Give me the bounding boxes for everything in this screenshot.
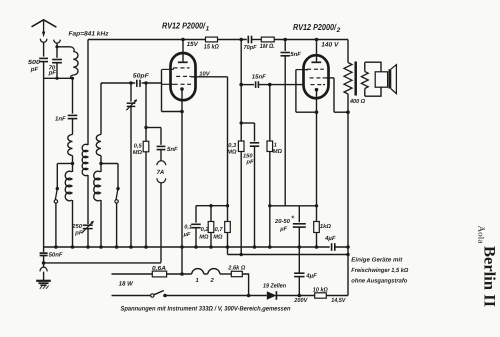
svg-text:+: +: [291, 215, 295, 221]
svg-text:pF: pF: [48, 70, 57, 77]
svg-text:µF: µF: [183, 232, 191, 238]
svg-text:Einige Geräte mit: Einige Geräte mit: [351, 257, 403, 264]
svg-text:MΩ: MΩ: [273, 149, 283, 155]
svg-text:20-50: 20-50: [274, 218, 291, 225]
svg-text:2: 2: [210, 277, 215, 284]
svg-text:500: 500: [28, 59, 41, 66]
svg-text:Freischwinger 1,5 kΩ: Freischwinger 1,5 kΩ: [351, 267, 408, 274]
svg-text:1: 1: [206, 25, 210, 32]
svg-text:10V: 10V: [199, 70, 210, 77]
svg-text:RV12 P2000/: RV12 P2000/: [162, 20, 206, 30]
svg-text:4µF: 4µF: [324, 235, 336, 242]
svg-text:1nF: 1nF: [55, 116, 66, 123]
svg-text:MΩ: MΩ: [227, 149, 237, 155]
svg-text:MΩ: MΩ: [133, 150, 143, 156]
svg-text:MΩ: MΩ: [213, 234, 223, 240]
svg-text:pF: pF: [246, 160, 254, 166]
svg-text:2,6k Ω: 2,6k Ω: [227, 265, 245, 272]
svg-text:250: 250: [71, 223, 82, 230]
svg-text:70pF: 70pF: [244, 44, 257, 51]
svg-text:7A: 7A: [157, 169, 165, 176]
svg-text:0,3: 0,3: [228, 143, 237, 149]
svg-text:5nF: 5nF: [290, 51, 301, 58]
svg-text:14,5V: 14,5V: [331, 297, 346, 304]
svg-text:15nF: 15nF: [252, 74, 266, 81]
svg-text:µF: µF: [279, 227, 287, 233]
svg-text:19 Zellen: 19 Zellen: [263, 283, 286, 290]
svg-text:1M Ω.: 1M Ω.: [260, 43, 275, 50]
svg-text:RV12 P2000/: RV12 P2000/: [293, 22, 337, 32]
svg-text:Fap=841 kHz: Fap=841 kHz: [69, 30, 110, 37]
svg-text:2: 2: [336, 27, 341, 34]
svg-text:Berlin II: Berlin II: [481, 246, 498, 307]
svg-text:0,2: 0,2: [201, 227, 210, 233]
svg-text:0,7: 0,7: [215, 227, 224, 233]
svg-text:Spannungen mit Instrument 333Ω: Spannungen mit Instrument 333Ω / V, 300V…: [121, 305, 291, 312]
svg-text:50pF: 50pF: [133, 73, 149, 80]
svg-text:MΩ: MΩ: [199, 234, 209, 240]
svg-text:pF: pF: [74, 230, 83, 236]
svg-text:15 kΩ: 15 kΩ: [204, 44, 219, 51]
svg-text:18 W: 18 W: [119, 281, 134, 288]
svg-text:pF: pF: [30, 66, 39, 73]
svg-text:1: 1: [274, 142, 277, 148]
svg-text:0,6A: 0,6A: [152, 265, 166, 272]
svg-text:0,5: 0,5: [134, 143, 143, 149]
svg-text:ohne Ausgangstrafo: ohne Ausgangstrafo: [351, 278, 407, 285]
svg-text:1kΩ: 1kΩ: [320, 223, 331, 230]
svg-text:0,1: 0,1: [184, 225, 192, 231]
svg-text:200V: 200V: [293, 297, 308, 304]
svg-text:10 kΩ: 10 kΩ: [313, 286, 328, 293]
svg-text:4µF: 4µF: [305, 273, 317, 280]
svg-text:15V: 15V: [187, 41, 199, 48]
svg-text:5nF: 5nF: [167, 146, 178, 153]
svg-text:50nF: 50nF: [49, 252, 63, 259]
svg-text:400 Ω: 400 Ω: [349, 98, 365, 105]
svg-text:140 V: 140 V: [321, 42, 339, 49]
svg-text:1: 1: [196, 278, 199, 284]
svg-text:Äola: Äola: [477, 226, 486, 245]
